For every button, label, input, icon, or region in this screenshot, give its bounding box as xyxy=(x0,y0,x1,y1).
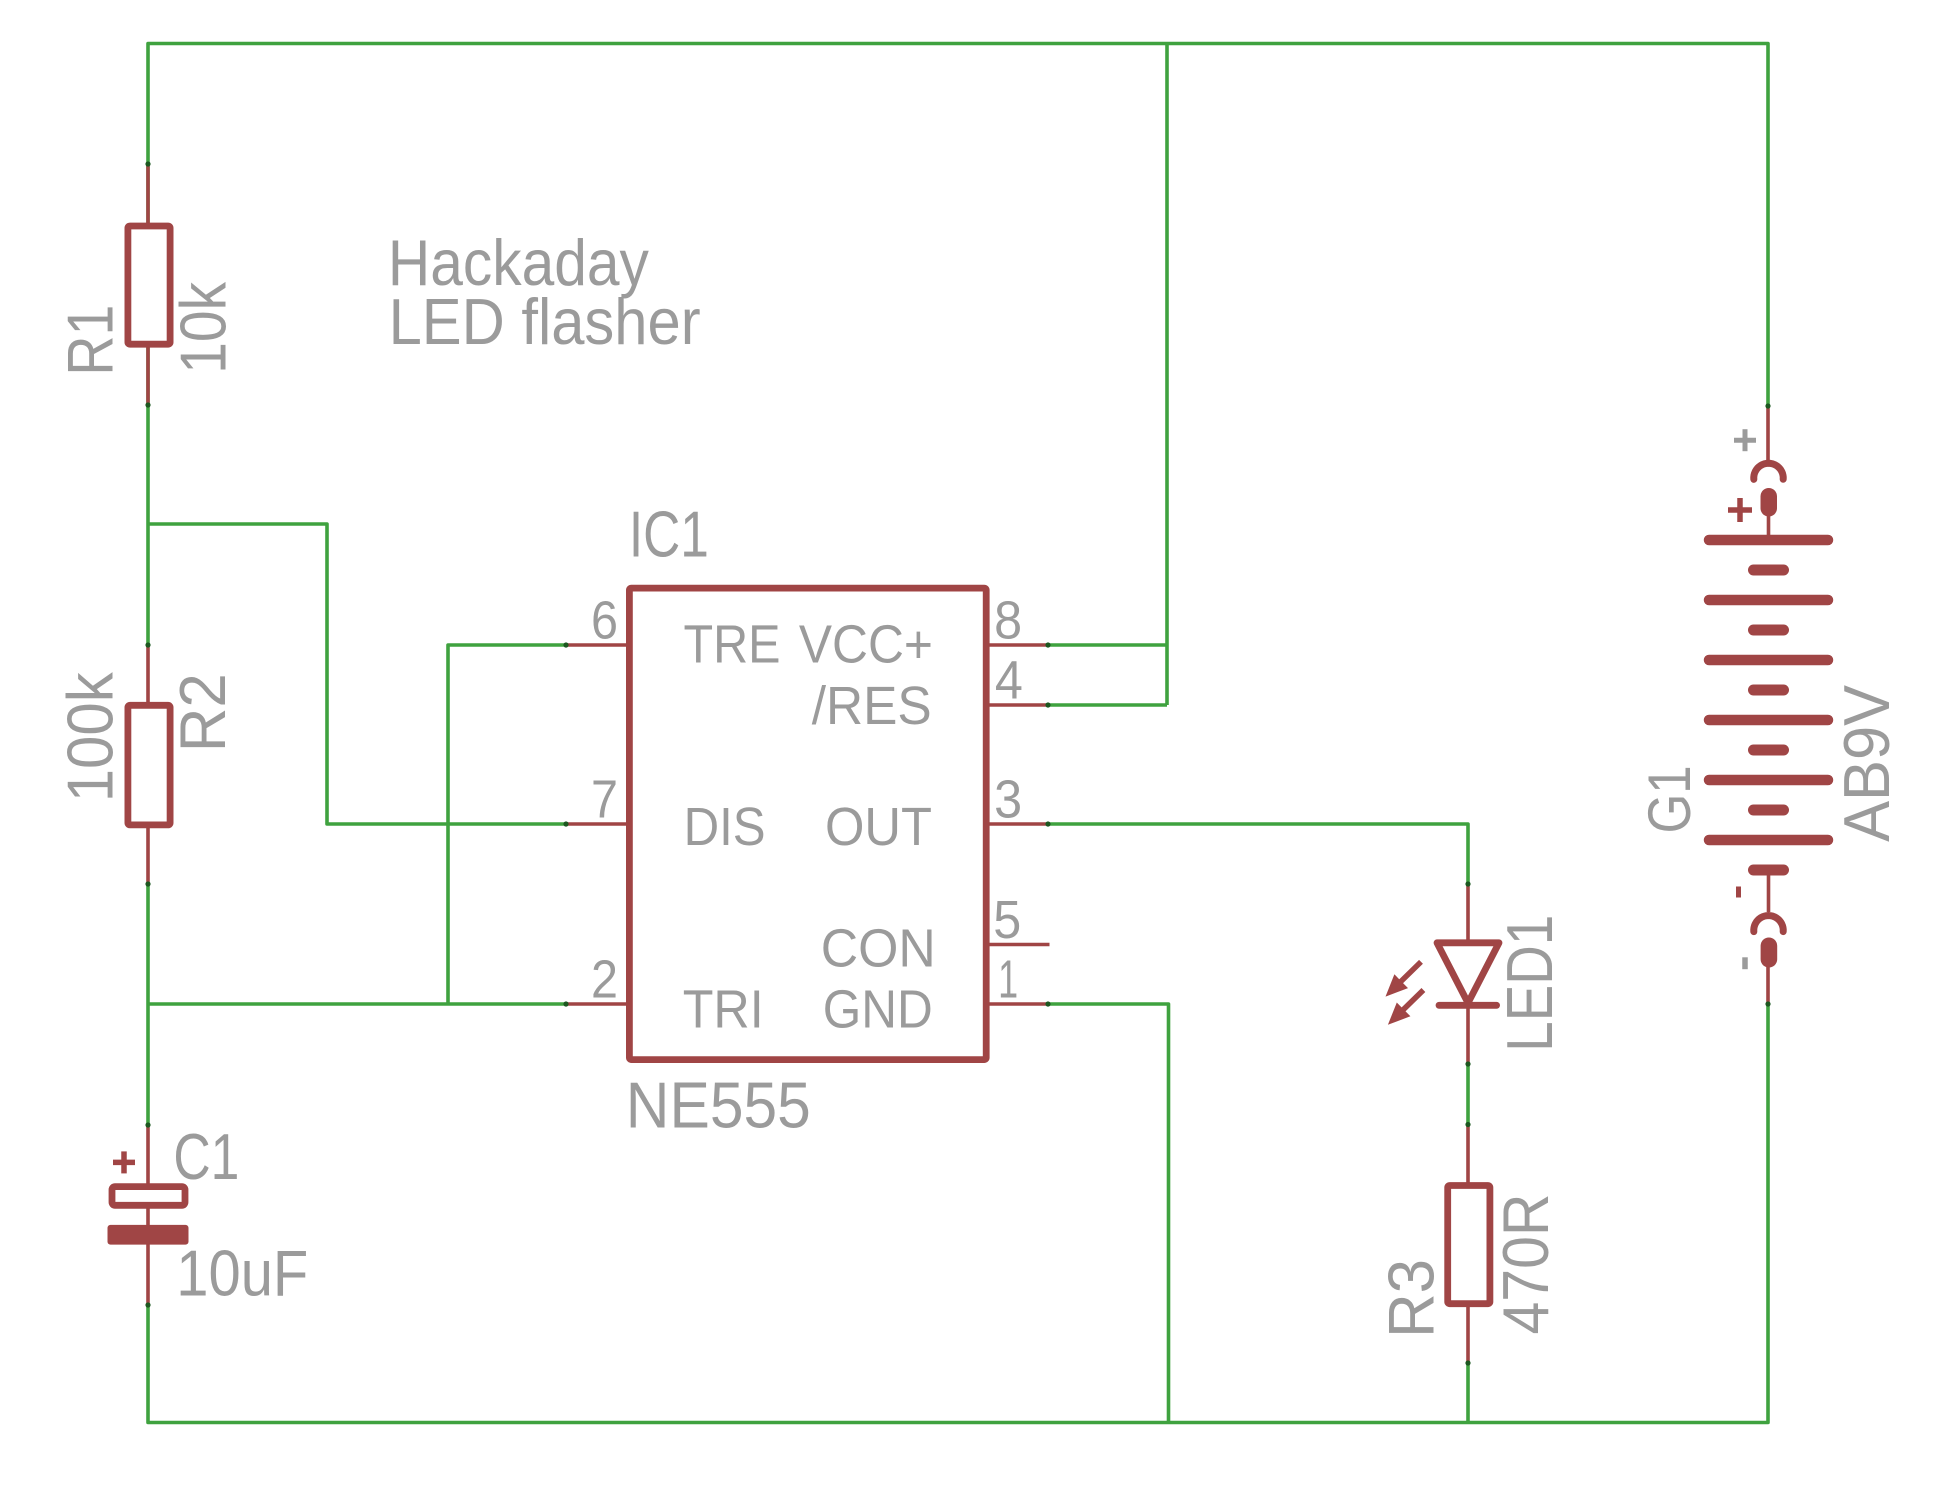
pin + xyxy=(1766,406,1770,463)
wire VCC branch to pin8/pin4 xyxy=(1165,44,1169,706)
pin 6 TRE xyxy=(566,643,626,647)
svg-text:C1: C1 xyxy=(173,1120,239,1193)
svg-text:10uF: 10uF xyxy=(176,1237,308,1310)
wire GND pin1 xyxy=(1048,1004,1169,1423)
svg-text:NE555: NE555 xyxy=(626,1068,811,1141)
pin 4 /RES xyxy=(989,703,1048,707)
svg-text:10k: 10k xyxy=(167,281,240,373)
svg-text:VCC+: VCC+ xyxy=(799,616,933,675)
svg-text:DIS: DIS xyxy=(684,798,766,857)
svg-text:R3: R3 xyxy=(1375,1259,1448,1338)
svg-text:R1: R1 xyxy=(54,305,127,376)
resistor R2 xyxy=(54,645,240,884)
svg-text:5: 5 xyxy=(993,891,1021,950)
svg-text:2: 2 xyxy=(591,951,618,1010)
svg-text:6: 6 xyxy=(591,592,618,651)
svg-text:LED flasher: LED flasher xyxy=(389,285,701,358)
wire pin4 /RES xyxy=(1048,703,1167,707)
wire OUT pin3 to LED xyxy=(1048,824,1468,884)
LED anode pin xyxy=(1466,884,1470,946)
svg-text:8: 8 xyxy=(994,592,1022,651)
pin - xyxy=(1766,966,1770,1004)
LED arrow 1 xyxy=(1386,962,1422,997)
svg-text:CON: CON xyxy=(821,920,936,979)
svg-text:IC1: IC1 xyxy=(629,498,709,571)
svg-text:4: 4 xyxy=(995,652,1023,711)
svg-text:1: 1 xyxy=(998,951,1018,1010)
wire R1-R2 node xyxy=(146,405,150,645)
LED cathode pin xyxy=(1466,1002,1470,1064)
svg-text:GND: GND xyxy=(823,981,933,1040)
LED cathode bar xyxy=(1439,1002,1497,1009)
pin 7 DIS xyxy=(566,822,626,826)
LED triangle xyxy=(1437,943,1499,1003)
bottom snap stud xyxy=(1761,938,1778,968)
resistor R3 xyxy=(1375,1125,1562,1364)
svg-text:AB9V: AB9V xyxy=(1830,684,1903,842)
top snap stud xyxy=(1761,488,1778,517)
cell plates xyxy=(1709,540,1828,870)
svg-text:OUT: OUT xyxy=(825,798,932,857)
pin 5 CON xyxy=(989,943,1050,947)
bottom snap arc xyxy=(1754,916,1783,932)
wire LED to R3 xyxy=(1466,1064,1470,1125)
LED arrow 2 xyxy=(1388,990,1424,1025)
wire branch to DIS pin7 xyxy=(148,524,566,824)
svg-text:LED1: LED1 xyxy=(1493,915,1566,1052)
gray plus mark xyxy=(1734,429,1756,451)
resistor R1 xyxy=(54,164,240,405)
svg-text:3: 3 xyxy=(994,771,1022,830)
pin 1 GND xyxy=(989,1002,1048,1006)
svg-text:/RES: /RES xyxy=(812,677,932,736)
IC body xyxy=(629,588,986,1060)
capacitor C1 xyxy=(108,1120,309,1310)
pin 2 TRI xyxy=(566,1002,626,1006)
pin 8 VCC+ xyxy=(989,643,1048,647)
svg-text:470R: 470R xyxy=(1489,1194,1562,1335)
svg-text:7: 7 xyxy=(591,771,618,830)
red minus mark xyxy=(1736,887,1741,898)
red plus mark xyxy=(1728,498,1752,522)
svg-text:TRI: TRI xyxy=(683,981,764,1040)
pin 3 OUT xyxy=(989,822,1048,826)
gray minus mark xyxy=(1742,957,1748,969)
junction pin dots xyxy=(145,161,1770,1365)
top snap arc xyxy=(1754,463,1783,479)
IC timer IC1 NE555 xyxy=(566,498,1050,1142)
title text xyxy=(388,226,701,358)
wire GND bottom rail xyxy=(148,1004,1768,1423)
svg-text:G1: G1 xyxy=(1636,765,1703,833)
svg-text:100k: 100k xyxy=(54,672,127,802)
wire pin8 VCC+ xyxy=(1048,643,1167,647)
wire R2-C1 node xyxy=(146,884,150,1125)
svg-text:TRE: TRE xyxy=(684,616,781,675)
wire R3 bottom to GND xyxy=(1466,1363,1470,1423)
wire TRE pin6 to TRI xyxy=(448,645,566,1004)
svg-text:R2: R2 xyxy=(166,673,239,752)
LED LED1 xyxy=(1386,884,1566,1064)
wire TRI pin2 horizontal xyxy=(148,1002,566,1006)
wire N$1 VCC top rail xyxy=(148,44,1768,407)
battery G1 AB9V xyxy=(1636,406,1903,1004)
